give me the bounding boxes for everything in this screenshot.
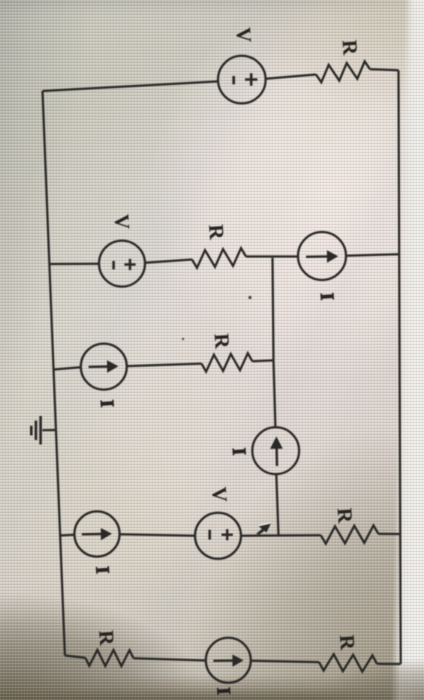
svg-text:V: V — [231, 27, 256, 44]
current source I5 (bottom border) — [206, 638, 251, 683]
wire top border left segment — [43, 81, 219, 91]
wire middle vertical lower (I3 to node J2) — [276, 474, 278, 536]
wire row A V2 to R2 — [145, 260, 192, 263]
svg-text:V: V — [207, 486, 232, 503]
svg-text:I: I — [91, 566, 112, 575]
svg-text:I: I — [96, 399, 117, 408]
wire row B R3 to middle vertical — [252, 359, 273, 362]
wire row B I2 to R3 — [127, 364, 202, 367]
wire row C from left border — [60, 534, 74, 537]
svg-text:R: R — [333, 507, 358, 525]
current source I3 (middle vertical, arrow up) — [252, 427, 299, 474]
svg-text:I: I — [212, 687, 233, 696]
current source I2 (row B) — [81, 344, 127, 390]
speck dot lower — [182, 338, 184, 340]
wire bottom border right-mid segment — [251, 661, 319, 662]
svg-text:I: I — [228, 447, 249, 456]
wire row A I1 to right border — [346, 254, 399, 256]
current source I1 (row A) — [298, 232, 346, 280]
wire left border — [43, 91, 65, 656]
svg-text:I: I — [316, 292, 337, 301]
svg-text:R: R — [338, 39, 363, 57]
resistor R1 (top border) — [316, 61, 370, 82]
wire bottom border mid segment — [134, 658, 206, 660]
speck dot near node — [248, 296, 251, 299]
resistor R6 (bottom border right) — [319, 654, 377, 672]
ground (on left border) — [31, 416, 56, 445]
cursor arrow near node J2 — [256, 523, 271, 535]
wire row A from left border — [49, 263, 99, 265]
voltage source V2 (row A) — [99, 241, 145, 287]
wire top border right segment — [370, 69, 399, 70]
voltage source V3 (row C) — [195, 513, 241, 559]
wire right border — [399, 70, 401, 664]
wire row C I4 to V3 — [120, 534, 195, 536]
svg-text:R: R — [204, 224, 229, 242]
svg-text:R: R — [335, 634, 360, 652]
resistor R4 (row C) — [321, 525, 379, 543]
svg-text:V: V — [110, 213, 135, 230]
svg-text:R: R — [94, 629, 119, 647]
wire row A R2 to I1 through node J1 — [246, 255, 298, 257]
wire row B from left border — [54, 367, 81, 369]
wire middle vertical to I3 — [274, 360, 276, 427]
voltage source V1 (top border) — [218, 56, 266, 104]
resistor R5 (bottom border left) — [85, 650, 133, 666]
wire row C R4 to right border — [379, 533, 401, 535]
svg-text:R: R — [210, 333, 235, 351]
current source I4 (row C) — [74, 511, 119, 556]
wire bottom border left segment — [65, 656, 85, 658]
wire top border mid segment — [266, 75, 317, 79]
resistor R2 (row A) — [192, 248, 246, 268]
resistor R3 (row B) — [202, 353, 253, 372]
wire row C V3 to R4 through node J2 — [241, 534, 321, 537]
wire middle vertical upper (node J1 down to row B tap) — [273, 258, 274, 361]
wire bottom border right segment — [377, 663, 401, 665]
